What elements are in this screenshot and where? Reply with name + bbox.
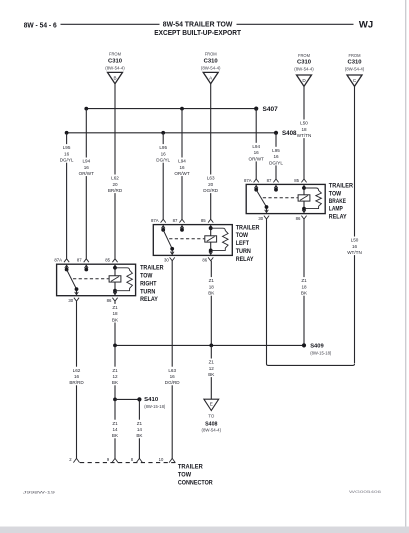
svg-text:TOW: TOW (329, 191, 342, 197)
svg-text:85: 85 (294, 178, 299, 183)
wire L62 16 BR/RD right turn relay 30 to connector pin 2 (69, 301, 84, 459)
svg-text:BK: BK (112, 380, 119, 385)
svg-text:18: 18 (301, 284, 307, 289)
svg-text:BK: BK (208, 372, 215, 377)
svg-text:OR/WT: OR/WT (174, 171, 190, 176)
pin 87 terminal (267, 178, 279, 192)
svg-text:BK: BK (136, 433, 143, 438)
svg-text:DG/YL: DG/YL (269, 160, 283, 165)
svg-text:TRAILER: TRAILER (236, 225, 260, 231)
pin 30 terminal (258, 207, 269, 221)
footer drawing number right (349, 489, 382, 494)
junction at L95 bus middle (161, 131, 165, 135)
svg-text:(8W-54-4): (8W-54-4) (105, 65, 125, 70)
header model WJ (359, 19, 373, 29)
svg-text:BRAKE: BRAKE (329, 199, 346, 205)
wire Z1 14 BK to connector pin 9 (110, 399, 121, 458)
svg-text:EXCEPT BUILT-UP-EXPORT: EXCEPT BUILT-UP-EXPORT (154, 28, 241, 37)
svg-text:87: 87 (77, 258, 82, 263)
connector C310 pin D (from 8W-54-4) (294, 53, 314, 86)
header title (154, 19, 241, 37)
relay coil (298, 185, 310, 210)
svg-text:CONNECTOR: CONNECTOR (178, 481, 213, 487)
svg-text:85: 85 (201, 218, 206, 223)
svg-text:Z1: Z1 (112, 368, 118, 373)
svg-text:BK: BK (112, 433, 119, 438)
svg-text:FROM: FROM (205, 52, 217, 57)
junction Z1 bus middle (209, 344, 213, 348)
svg-text:RIGHT: RIGHT (140, 281, 157, 287)
svg-text:(8W-54-4): (8W-54-4) (201, 65, 221, 70)
svg-text:(8W-15-18): (8W-15-18) (310, 351, 332, 356)
svg-text:BR/RD: BR/RD (69, 380, 84, 385)
actuating linkage (dashed) (169, 238, 204, 240)
svg-text:DG/RD: DG/RD (203, 188, 218, 193)
junction Z1 bus left (113, 344, 117, 348)
pin 86 terminal (202, 250, 213, 262)
pin 87A terminal (244, 178, 259, 192)
svg-text:L95: L95 (159, 145, 167, 150)
wire L94 splice bus to S407 (86, 108, 256, 110)
svg-text:30: 30 (258, 216, 263, 221)
wire L63 16 DG/RD left turn relay 30 to connector pin 10 (165, 261, 180, 459)
svg-text:S408: S408 (282, 131, 297, 137)
svg-text:16: 16 (74, 374, 80, 379)
wire L94 16 OR/WT from S407 to brake lamp relay 87A (249, 109, 265, 179)
relay U3 trailer tow brake lamp relay (244, 178, 354, 221)
wire Z1 18 BK from right turn relay 86 (110, 301, 121, 345)
junction at L94 bus middle (180, 107, 184, 111)
pin 87A terminal (54, 258, 69, 272)
svg-text:14: 14 (112, 427, 118, 432)
svg-text:16: 16 (64, 151, 70, 156)
svg-text:87A: 87A (54, 258, 62, 263)
relay U1 trailer tow right turn relay (54, 258, 164, 304)
svg-text:10: 10 (159, 457, 164, 462)
svg-text:OR/WT: OR/WT (79, 171, 95, 176)
svg-text:Z1: Z1 (112, 421, 118, 426)
svg-text:87: 87 (173, 218, 178, 223)
connector C310 pin A (from 8W-54-4) (201, 52, 221, 84)
relay body U2 trailer tow left turn relay (153, 225, 232, 256)
connector pin 8 (131, 457, 143, 463)
svg-text:WJ: WJ (359, 19, 373, 29)
svg-text:TOW: TOW (236, 233, 249, 239)
wire L95 16 DG/YL to right turn relay 87A (60, 133, 74, 259)
svg-text:20: 20 (112, 182, 118, 187)
svg-text:WG005406: WG005406 (349, 489, 382, 494)
svg-text:L50: L50 (351, 238, 359, 243)
wire Z1 12 BK from Z1 bus to connector E (206, 345, 217, 399)
svg-text:86: 86 (202, 258, 207, 263)
svg-text:L62: L62 (73, 368, 81, 373)
connector C310 pin B (from 8W-54-4) (105, 52, 125, 84)
svg-text:(8W-54-4): (8W-54-4) (202, 428, 222, 433)
svg-text:16: 16 (254, 150, 260, 155)
wire tap to splice S410 (115, 398, 139, 400)
svg-text:RELAY: RELAY (329, 214, 347, 220)
svg-text:16: 16 (273, 154, 279, 159)
trailer tow connector label (178, 464, 213, 486)
actuating linkage (dashed) (263, 197, 298, 199)
svg-text:87A: 87A (151, 218, 159, 223)
svg-text:16: 16 (84, 165, 90, 170)
junction at L94 bus left (84, 107, 88, 111)
wire L63 20 DG/RD from C310-A to left turn relay 85 (203, 84, 218, 219)
svg-text:C310: C310 (297, 60, 311, 66)
svg-text:BR/RD: BR/RD (108, 188, 123, 193)
svg-text:30: 30 (164, 258, 169, 263)
svg-text:16: 16 (161, 151, 167, 156)
svg-text:LEFT: LEFT (236, 241, 250, 247)
svg-text:C310: C310 (108, 58, 122, 64)
svg-text:Z1: Z1 (137, 421, 143, 426)
actuating linkage (dashed) (73, 278, 109, 280)
svg-text:86: 86 (296, 216, 301, 221)
svg-text:S408: S408 (205, 422, 217, 428)
coil suppression resistor (304, 188, 321, 209)
svg-text:L63: L63 (207, 176, 215, 181)
svg-text:12: 12 (112, 374, 118, 379)
relay U2 trailer tow left turn relay (151, 218, 260, 263)
pin 86 terminal (296, 209, 307, 221)
coil suppression resistor (115, 268, 132, 291)
pin 85 terminal (294, 178, 306, 188)
relay name label (329, 184, 354, 221)
wire Z1 14 BK from S410 to connector pin 8 (134, 399, 145, 458)
svg-text:C310: C310 (348, 60, 362, 66)
svg-text:BK: BK (112, 317, 119, 322)
svg-text:E: E (210, 402, 213, 407)
pin 86 terminal (107, 291, 118, 303)
wire L95 16 DG/YL to left turn relay 87A (156, 133, 170, 219)
svg-text:TURN: TURN (140, 289, 155, 295)
pin 30 terminal (164, 249, 175, 263)
coil suppression resistor (211, 228, 228, 250)
connector E (to S408, 8W-54-4) (202, 399, 222, 432)
splice S410 (137, 397, 166, 409)
svg-text:(8W-15-18): (8W-15-18) (144, 404, 166, 409)
svg-text:FROM: FROM (109, 52, 121, 57)
svg-text:30: 30 (68, 298, 73, 303)
svg-text:L94: L94 (82, 159, 90, 164)
svg-text:18: 18 (301, 127, 307, 132)
wire Z1 12 BK down from Z1 bus to S410 junction (110, 345, 121, 399)
connector pin 2 (69, 457, 79, 463)
wire Z1 18 BK from brake lamp relay 86 (299, 219, 310, 345)
header rule left segment (61, 23, 160, 25)
svg-text:BK: BK (208, 291, 215, 296)
svg-text:8W - 54 - 6: 8W - 54 - 6 (24, 23, 57, 30)
svg-text:86: 86 (107, 298, 112, 303)
svg-text:J998W-19: J998W-19 (23, 490, 56, 495)
relay name label (236, 225, 260, 263)
svg-text:TOW: TOW (140, 274, 153, 280)
svg-text:WT/TN: WT/TN (347, 250, 362, 255)
trailer tow connector dashed boundary (80, 462, 176, 464)
svg-text:(8W-54-4): (8W-54-4) (294, 67, 314, 72)
switch armature 30/87A (67, 270, 79, 292)
svg-text:16: 16 (352, 244, 358, 249)
svg-text:12: 12 (209, 366, 215, 371)
svg-text:DG/YL: DG/YL (60, 158, 74, 163)
svg-text:L94: L94 (178, 159, 186, 164)
svg-text:L62: L62 (111, 176, 119, 181)
svg-text:L95: L95 (63, 145, 71, 150)
svg-text:Z1: Z1 (209, 360, 215, 365)
svg-text:Z1: Z1 (112, 305, 118, 310)
connector C310 pin C (from 8W-54-4) (345, 53, 365, 86)
svg-text:L63: L63 (168, 368, 176, 373)
wire L95 16 DG/YL from S408 to brake lamp relay 87 (269, 133, 283, 179)
header page number (24, 23, 57, 30)
svg-text:18: 18 (112, 311, 118, 316)
splice S407 (254, 107, 278, 113)
pin 85 terminal (105, 258, 117, 268)
wire Z1 18 BK from left turn relay 86 (206, 261, 217, 346)
pin 87 terminal (77, 258, 89, 272)
svg-text:TURN: TURN (236, 249, 251, 255)
svg-text:DG/YL: DG/YL (156, 158, 170, 163)
relay name label (140, 266, 164, 304)
junction at Z1/S410 tap (113, 398, 117, 402)
header rule right segment (237, 23, 354, 25)
svg-text:FROM: FROM (298, 53, 310, 58)
svg-text:B: B (113, 75, 116, 80)
svg-text:TO: TO (208, 413, 215, 418)
pin 87 terminal (173, 218, 185, 232)
wire L94 16 OR/WT to left turn relay 87 (174, 109, 190, 220)
pin 85 terminal (201, 218, 213, 228)
svg-text:OR/WT: OR/WT (249, 156, 265, 161)
svg-text:85: 85 (105, 258, 110, 263)
switch armature 30/87A (163, 230, 174, 251)
junction at L95 bus left (65, 131, 69, 135)
svg-text:S409: S409 (310, 344, 324, 350)
pin 87A terminal (151, 218, 166, 232)
svg-text:L94: L94 (252, 144, 260, 149)
splice S408 (274, 131, 297, 137)
svg-text:DG/RD: DG/RD (165, 380, 180, 385)
footer drawing number left (23, 490, 56, 495)
svg-text:18: 18 (209, 284, 215, 289)
connector pin 9 (107, 457, 118, 463)
svg-text:C310: C310 (204, 58, 218, 64)
svg-text:TRAILER: TRAILER (178, 464, 204, 470)
svg-text:BK: BK (301, 291, 308, 296)
relay body U3 trailer tow brake lamp relay (246, 184, 325, 213)
svg-text:TRAILER: TRAILER (140, 266, 164, 272)
svg-text:16: 16 (170, 374, 176, 379)
svg-text:WT/TN: WT/TN (297, 133, 312, 138)
svg-text:RELAY: RELAY (236, 257, 254, 263)
svg-text:87A: 87A (244, 178, 252, 183)
wire L50 16 WT/TN from C310-C to brake lamp relay 30 (267, 86, 362, 365)
svg-text:RELAY: RELAY (140, 297, 158, 303)
svg-text:S407: S407 (263, 107, 279, 113)
svg-text:TOW: TOW (178, 473, 192, 479)
svg-text:Z1: Z1 (209, 278, 215, 283)
wire L94 16 OR/WT to right turn relay 87 (79, 109, 95, 259)
switch armature 30/87A (256, 190, 268, 209)
wire L62 20 BR/RD from C310-B to right turn relay 85 (108, 84, 123, 259)
splice S409 (302, 343, 332, 355)
svg-text:14: 14 (137, 427, 143, 432)
svg-text:(8W-54-4): (8W-54-4) (345, 67, 365, 72)
svg-text:L50: L50 (300, 121, 308, 126)
svg-text:87: 87 (267, 178, 272, 183)
wire L50 18 WT/TN from C310-D to brake lamp relay 85 (297, 86, 312, 179)
wire Z1 ground bus (115, 344, 304, 346)
wire L95 splice bus to S408 (67, 132, 276, 134)
pin 30 terminal (68, 289, 79, 303)
relay body U1 trailer tow right turn relay (57, 264, 136, 296)
relay coil (205, 226, 217, 253)
svg-text:16: 16 (179, 165, 185, 170)
svg-text:L95: L95 (272, 148, 280, 153)
svg-text:TRAILER: TRAILER (329, 184, 354, 190)
svg-text:20: 20 (208, 182, 214, 187)
relay coil (109, 265, 121, 292)
svg-text:LAMP: LAMP (329, 207, 343, 213)
svg-text:FROM: FROM (349, 53, 361, 58)
connector pin 10 (159, 457, 176, 463)
svg-text:S410: S410 (144, 397, 158, 403)
svg-text:Z1: Z1 (301, 278, 307, 283)
